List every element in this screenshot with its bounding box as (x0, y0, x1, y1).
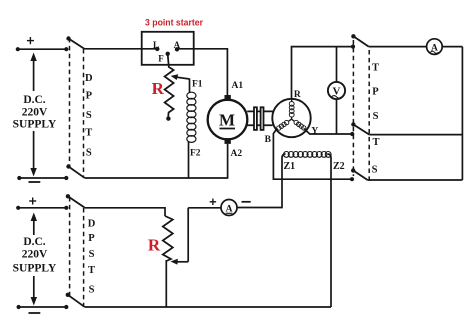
switch DPSTS 2 pole 1 blade (66, 194, 85, 207)
wire ammeter to right bus (442, 46, 462, 48)
svg-text:A1: A1 (232, 81, 244, 91)
wire ammeter to Z1 (237, 206, 282, 209)
node L (153, 40, 160, 51)
starter box U1 (142, 32, 194, 65)
svg-text:L: L (153, 40, 159, 50)
label DC supply 2 (13, 236, 57, 274)
wire alternator Y to TPST pole2 (305, 129, 355, 136)
ammeter A line (427, 39, 443, 55)
svg-text:S: S (89, 249, 95, 260)
node ammeter plus (210, 199, 216, 205)
wire supply 2 to field rheostat (85, 208, 166, 216)
svg-text:D: D (85, 73, 93, 84)
wire rheostat bottom to negative bus (165, 260, 167, 307)
wire TPST pole1 output to ammeter (369, 46, 427, 48)
svg-text:S: S (86, 148, 92, 159)
node ammeter minus (242, 201, 251, 203)
node A (174, 40, 181, 51)
wire motor A2 to negative bus (227, 144, 229, 178)
svg-text:M: M (219, 111, 235, 130)
wire alternator R to TPST pole1 (292, 45, 356, 99)
wire TPST pole3 output (368, 179, 463, 181)
svg-text:D.C.: D.C. (23, 236, 45, 248)
svg-text:T: T (85, 128, 92, 139)
wire DC supply 2 positive lead (16, 206, 68, 210)
svg-text:Z2: Z2 (333, 161, 345, 172)
wire switch to starter L (85, 48, 158, 50)
svg-text:S: S (89, 284, 95, 295)
supply 1 voltage arrow (30, 53, 36, 177)
wiper arrow of field rheostat (171, 208, 189, 265)
svg-text:R: R (148, 235, 161, 254)
wire wiper to ammeter plus (188, 207, 221, 209)
alternator phase winding R (289, 99, 294, 119)
svg-text:P: P (372, 87, 379, 98)
wire DC supply 1 positive lead (16, 47, 69, 51)
inductor alternator field coil Z1-Z2 (282, 152, 331, 308)
wire negative bus of supply 1 (85, 177, 229, 179)
svg-text:D.C.: D.C. (23, 94, 45, 106)
motor brush terminal top (225, 95, 231, 101)
wire alternator B to TPST pole3 (273, 130, 354, 181)
wire negative bus supply 2 to Z2 (85, 306, 332, 308)
node plus terminal of DC supply 2 (29, 198, 36, 205)
switch DPSTS 2 pole 2 blade (66, 293, 85, 307)
svg-text:220V: 220V (22, 248, 48, 260)
svg-text:3 point starter: 3 point starter (145, 17, 203, 28)
switch TPSTS pole 3 blade (351, 168, 368, 180)
svg-text:T: T (88, 265, 95, 276)
alternator phase winding Y (292, 119, 306, 130)
switch DPSTS 1 pole 2 blade (66, 164, 84, 178)
switch TPSTS pole 1 blade (351, 34, 369, 47)
svg-text:T: T (372, 63, 379, 74)
svg-text:T: T (372, 137, 379, 148)
switch TPSTS dashed gang lines (353, 40, 369, 183)
node minus terminal of DC supply 2 (29, 312, 41, 314)
svg-text:D: D (88, 218, 96, 229)
inductor motor field coil F1-F2 (187, 92, 196, 142)
svg-text:A2: A2 (231, 149, 243, 159)
svg-text:220V: 220V (22, 106, 48, 118)
switch DPSTS 1 dashed gang lines (70, 38, 84, 178)
switch DPSTS 2 dashed gang lines (70, 197, 84, 307)
svg-text:P: P (88, 233, 95, 244)
ammeter A field (221, 200, 237, 216)
svg-text:R: R (152, 79, 165, 98)
wire F2 to negative bus (188, 142, 190, 179)
svg-text:S: S (86, 110, 92, 121)
svg-text:Z1: Z1 (284, 161, 296, 172)
label TPSTS (372, 63, 380, 176)
wire DC supply 1 negative lead (17, 176, 68, 180)
node F (158, 52, 170, 64)
resistor R starter rheostat (165, 54, 174, 121)
svg-text:P: P (86, 91, 93, 102)
voltmeter V (328, 47, 345, 134)
wiper arrow of starter rheostat to F1 (171, 74, 190, 93)
wire DC supply 2 negative lead (17, 305, 69, 309)
svg-text:F: F (158, 54, 164, 64)
supply 2 voltage arrow (31, 213, 37, 306)
switch TPSTS pole 2 blade (351, 122, 369, 134)
svg-text:S: S (373, 111, 379, 122)
shaft coupling between motor and alternator (247, 107, 272, 130)
svg-text:SUPPLY: SUPPLY (13, 262, 57, 274)
svg-text:SUPPLY: SUPPLY (13, 118, 57, 130)
motor armature M (208, 100, 248, 140)
svg-text:R: R (294, 90, 301, 100)
wire right vertical bus (461, 47, 463, 180)
svg-text:F2: F2 (190, 149, 201, 159)
alternator stator circle (272, 99, 310, 137)
svg-text:F1: F1 (192, 80, 203, 90)
node minus terminal of DC supply 1 (29, 181, 41, 183)
resistor R field rheostat (163, 216, 173, 261)
wire TPST pole2 output (369, 134, 462, 136)
switch DPSTS 1 pole 1 blade (66, 36, 84, 49)
wire starter A to motor A1 (177, 49, 227, 96)
label DPSTS 2 (88, 218, 96, 295)
label DPSTS 1 (85, 73, 93, 159)
label DC supply 1 (13, 94, 57, 130)
svg-text:S: S (372, 165, 378, 176)
node plus terminal of DC supply 1 (27, 37, 34, 44)
svg-text:B: B (265, 135, 272, 145)
alternator phase winding B (276, 119, 291, 130)
svg-text:Y: Y (311, 126, 318, 136)
motor brush terminal bottom (225, 138, 231, 144)
